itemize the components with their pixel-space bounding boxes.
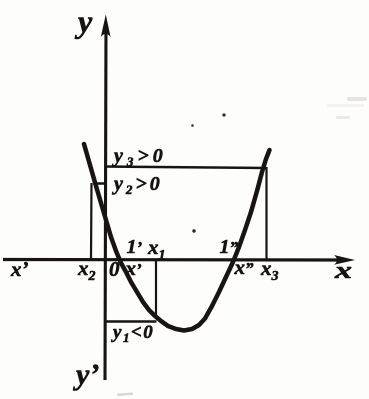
parabola curve [84,144,270,331]
y2 level tick [94,182,108,185]
svg-text:x: x [334,258,352,284]
svg-text:x’: x’ [10,257,29,281]
stray ink dot B [191,124,194,127]
x3 ordinate line [265,167,267,260]
svg-text:0: 0 [109,257,120,281]
x2 ordinate line [90,183,93,260]
svg-text:y’: y’ [73,358,99,391]
x-axis arrowhead [334,255,355,265]
svg-text:y3>0: y3>0 [112,145,167,169]
smudge artifact bottom [117,392,133,396]
y-axis arrowhead [101,15,111,38]
svg-text:1’: 1’ [127,236,143,258]
stray ink dot C [192,229,195,232]
svg-text:y1<0: y1<0 [111,322,154,345]
svg-text:x”: x” [234,255,255,279]
stray ink dot A [222,113,225,116]
y3 level line [106,167,267,169]
x1 ordinate line [155,260,157,318]
svg-text:y2>0: y2>0 [112,173,163,197]
svg-text:x’: x’ [125,256,143,280]
y-axis [105,24,106,380]
x-axis [3,258,342,262]
smudge artifact top right [327,97,367,119]
y1 level tick [106,320,157,323]
